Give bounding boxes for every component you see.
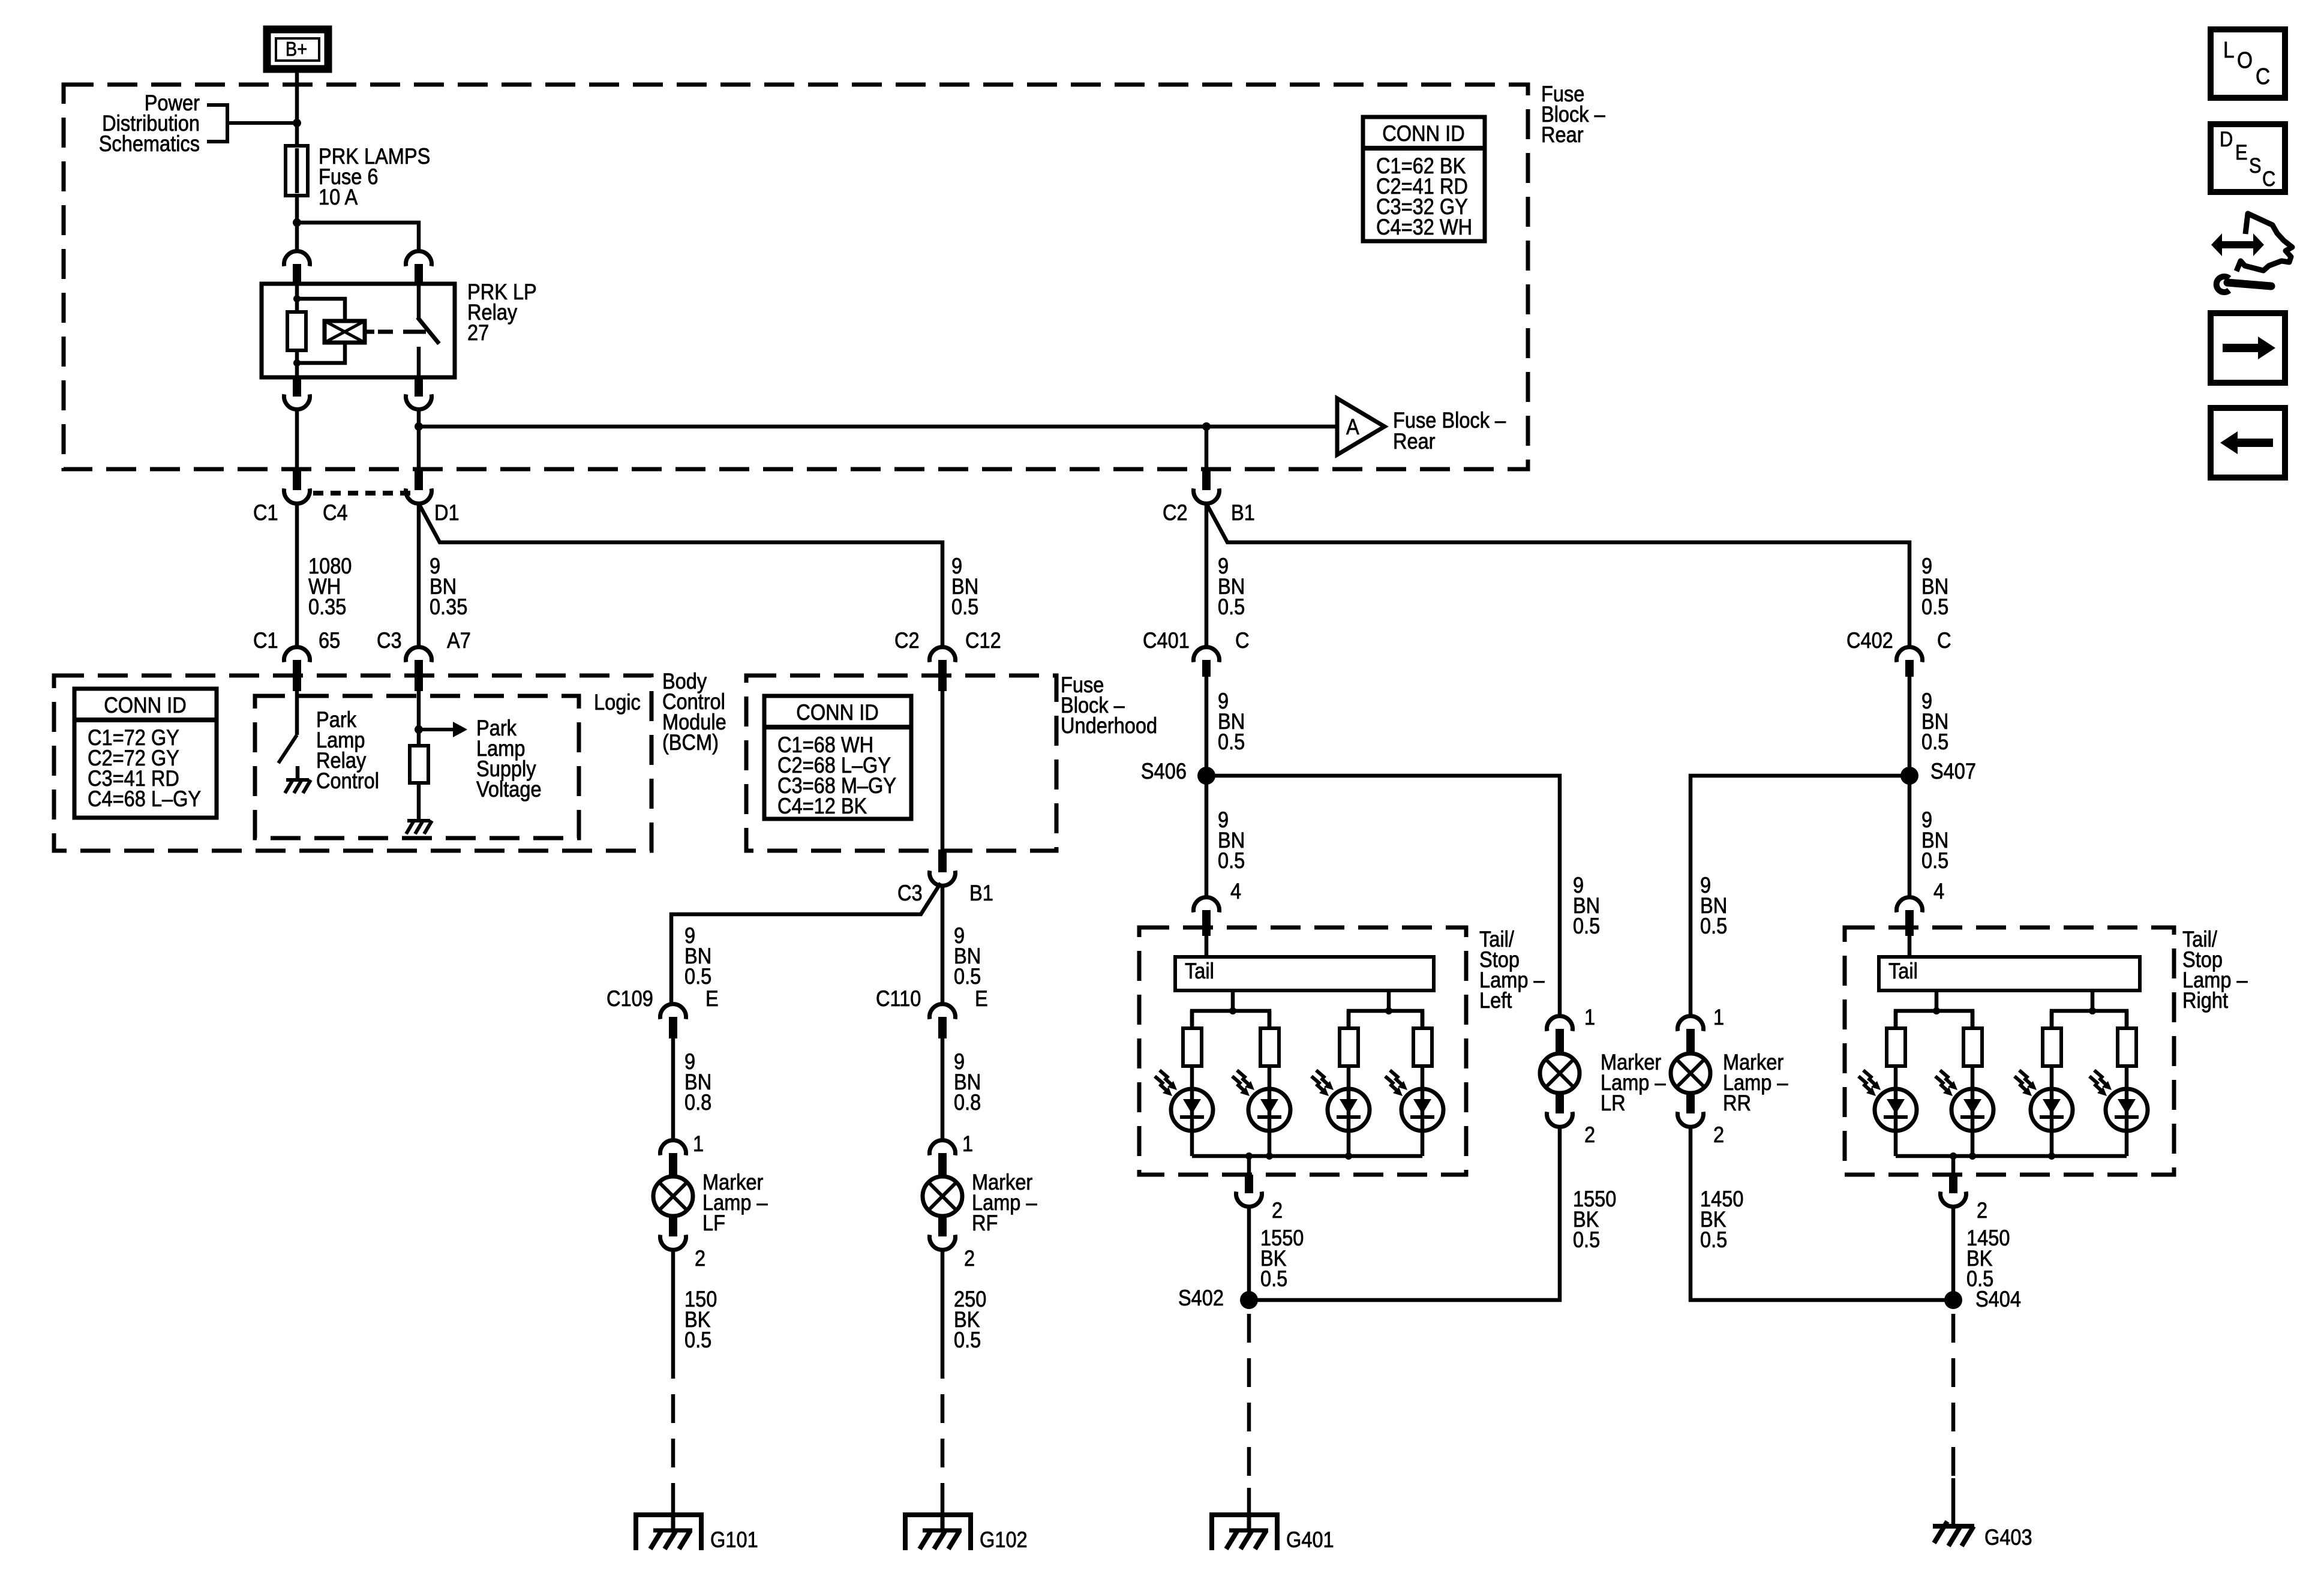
svg-text:2: 2 — [695, 1246, 705, 1271]
splice S402 — [1178, 1286, 1258, 1310]
LED cell 3 left — [1311, 1011, 1370, 1156]
connector D1 (fuse block rear, right) — [406, 467, 460, 525]
wire S404 to ground G403 — [1951, 1314, 1956, 1526]
svg-text:S404: S404 — [1975, 1287, 2021, 1311]
svg-text:CONN ID: CONN ID — [104, 693, 186, 718]
wire relay output left down to C1 — [295, 409, 299, 478]
node junction at B+ feed — [293, 119, 301, 127]
ground inside BCM (supply voltage) — [406, 783, 432, 834]
svg-text:D1: D1 — [434, 500, 460, 525]
wire 150 BK 0.5 to ground G101 — [673, 1250, 717, 1515]
relay switch contact — [418, 284, 439, 377]
svg-text:G401: G401 — [1286, 1527, 1334, 1552]
connector C109 pin E — [606, 986, 719, 1038]
svg-text:C: C — [1937, 628, 1951, 653]
svg-text:Right: Right — [2182, 988, 2228, 1013]
node junction below fuse — [293, 218, 301, 227]
Power Distribution Schematics reference — [99, 91, 297, 156]
svg-text:0.8: 0.8 — [954, 1090, 981, 1115]
wire fuse to relay — [295, 196, 299, 251]
BCM park lamp relay control switch — [278, 691, 379, 793]
icon diagnostic double arrow with wrench — [2211, 214, 2292, 292]
svg-text:E: E — [2235, 140, 2248, 164]
tail lamp right LED rail 2 — [2052, 990, 2127, 1028]
tail lamp left LED rail 2 — [1349, 990, 1422, 1028]
fuse PRK LAMPS Fuse 6 10 A — [286, 144, 430, 209]
wire branch to relay coil-side pin — [297, 223, 419, 251]
svg-text:C2: C2 — [894, 628, 920, 653]
BCM CONN ID table — [74, 689, 217, 818]
svg-text:Tail: Tail — [1888, 959, 1918, 983]
wire 1080 WH 0.35 — [297, 503, 352, 647]
svg-text:C4: C4 — [323, 500, 348, 525]
svg-text:4: 4 — [1933, 879, 1944, 903]
icon LOC box — [2211, 29, 2285, 98]
svg-text:C: C — [2256, 64, 2270, 89]
marker lamp LF pin 2 connector — [660, 1216, 706, 1271]
svg-text:Rear: Rear — [1393, 429, 1436, 454]
svg-text:B1: B1 — [1231, 500, 1255, 525]
relay PRK LP Relay 27 box — [262, 280, 537, 377]
connector relay pin top left — [284, 251, 310, 284]
svg-text:C401: C401 — [1143, 628, 1190, 653]
tail lamp right LED rail 1 — [1896, 990, 1972, 1028]
tail element box right — [1879, 936, 2140, 990]
svg-text:C109: C109 — [606, 986, 653, 1011]
wire 1550 BK 0.5 tail left to S402 — [1249, 1206, 1304, 1300]
connector pin 2 tail/stop lamp right — [1941, 1156, 1988, 1223]
LED cell 4 left — [1385, 1011, 1443, 1156]
relay coil symbol — [297, 299, 374, 363]
Body Control Module (BCM) dashed outline — [54, 669, 726, 851]
BCM park lamp supply voltage sense — [415, 691, 542, 801]
connector pin 2 tail/stop lamp left — [1236, 1156, 1283, 1223]
ground G403 — [1933, 1521, 2032, 1550]
icon forward arrow box — [2211, 313, 2285, 383]
ground G102 — [905, 1515, 1028, 1552]
svg-text:Left: Left — [1479, 988, 1512, 1013]
LED cell 1 left — [1155, 1011, 1213, 1156]
tail lamp left bottom bus — [1192, 1152, 1422, 1160]
splice S406 — [1141, 759, 1215, 785]
svg-text:(BCM): (BCM) — [662, 730, 719, 755]
svg-text:LF: LF — [702, 1211, 725, 1235]
svg-text:Voltage: Voltage — [476, 777, 542, 801]
svg-text:1: 1 — [962, 1131, 973, 1156]
svg-text:0.5: 0.5 — [1700, 914, 1727, 938]
svg-text:CONN ID: CONN ID — [796, 700, 878, 725]
svg-text:1: 1 — [1713, 1005, 1724, 1029]
connector pin 4 tail/stop lamp right — [1897, 879, 1945, 936]
marker lamp RR pin 1 connector — [1678, 1005, 1725, 1053]
svg-text:A: A — [1346, 415, 1359, 439]
svg-text:Tail: Tail — [1185, 959, 1214, 983]
LED cell 2 right — [1935, 1011, 1993, 1156]
wire 1450 BK 0.5 from RR to S404 — [1691, 1127, 1953, 1300]
svg-text:0.5: 0.5 — [1573, 914, 1600, 938]
svg-text:2: 2 — [1272, 1198, 1283, 1223]
label Fuse Block - Rear (top right) — [1541, 82, 1605, 147]
svg-text:Control: Control — [316, 769, 379, 793]
connector C2 pin C12 into fuse block underhood — [894, 628, 1001, 691]
wire B+ to fuse — [295, 68, 299, 146]
svg-text:0.35: 0.35 — [430, 595, 467, 619]
svg-text:C3: C3 — [897, 881, 923, 905]
svg-text:C110: C110 — [876, 986, 921, 1011]
marker lamp RR pin 2 connector — [1678, 1093, 1725, 1147]
svg-text:C4=68 L–GY: C4=68 L–GY — [88, 786, 201, 811]
svg-text:C402: C402 — [1846, 628, 1893, 653]
wire 9 BN 0.8 to marker lamp RF — [942, 1038, 981, 1140]
LED cell 2 left — [1232, 1011, 1290, 1156]
svg-text:C4=12 BK: C4=12 BK — [777, 794, 867, 818]
connector C401 pin C — [1143, 628, 1250, 677]
svg-text:D: D — [2220, 127, 2233, 151]
svg-text:0.5: 0.5 — [1921, 848, 1948, 873]
svg-text:G403: G403 — [1984, 1525, 2032, 1550]
svg-text:B+: B+ — [286, 38, 307, 60]
svg-text:0.5: 0.5 — [954, 1328, 981, 1352]
svg-text:Underhood: Underhood — [1061, 713, 1157, 738]
svg-text:C2: C2 — [1163, 500, 1188, 525]
wire C3/B1 down to C110 — [942, 885, 981, 1004]
svg-text:S: S — [2249, 154, 2262, 177]
BCM Logic dashed box — [255, 690, 641, 838]
wire down to connector C2/B1 — [1205, 427, 1209, 469]
svg-text:E: E — [705, 986, 719, 1011]
svg-text:0.5: 0.5 — [1700, 1227, 1727, 1252]
svg-text:C4=32 WH: C4=32 WH — [1376, 215, 1472, 239]
svg-text:CONN ID: CONN ID — [1382, 121, 1464, 146]
connector C1 pin 65 into BCM — [253, 628, 340, 691]
wire 9 BN 0.35 — [419, 503, 467, 647]
svg-text:0.5: 0.5 — [954, 964, 981, 989]
tail lamp right bottom bus — [1896, 1152, 2127, 1160]
svg-text:C12: C12 — [965, 628, 1001, 653]
lamp Marker Lamp - LF — [653, 1170, 768, 1235]
Fuse Block - Rear CONN ID table — [1363, 117, 1485, 241]
lamp Marker Lamp - LR — [1540, 1050, 1666, 1115]
svg-text:0.8: 0.8 — [684, 1090, 711, 1115]
svg-text:0.5: 0.5 — [1218, 848, 1245, 873]
marker lamp RF pin 2 connector — [930, 1216, 975, 1271]
connector relay pin bottom right — [406, 377, 432, 409]
ground G401 — [1212, 1515, 1334, 1552]
lamp Marker Lamp - RF — [923, 1170, 1037, 1235]
svg-text:RR: RR — [1723, 1091, 1751, 1115]
node junction on relay output — [415, 422, 423, 431]
wire 9 BN 0.5 from D1 to BCM C2 — [420, 506, 978, 647]
Tail/Stop Lamp - Right dashed outline — [1845, 927, 2248, 1175]
svg-text:RF: RF — [972, 1211, 998, 1235]
svg-text:0.35: 0.35 — [308, 595, 346, 619]
svg-text:2: 2 — [964, 1246, 975, 1271]
svg-text:0.5: 0.5 — [684, 964, 711, 989]
svg-text:O: O — [2237, 47, 2253, 73]
wire S402 to ground G401 — [1247, 1314, 1251, 1515]
svg-text:65: 65 — [319, 628, 340, 653]
Fuse Block - Rear dashed outline — [64, 85, 1528, 469]
wire through fuse block underhood — [941, 691, 945, 849]
relay actuation dashed link — [378, 330, 426, 334]
connector C402 pin C — [1846, 628, 1951, 677]
ground G101 — [636, 1515, 758, 1552]
svg-text:C3: C3 — [377, 628, 402, 653]
svg-text:0.5: 0.5 — [1921, 730, 1948, 754]
svg-text:0.5: 0.5 — [1921, 595, 1948, 619]
connector C3 pin A7 into BCM — [377, 628, 471, 691]
icon DESC box — [2211, 124, 2285, 192]
marker lamp LR pin 2 connector — [1547, 1093, 1596, 1147]
lamp Marker Lamp - RR — [1671, 1050, 1788, 1115]
connector relay pin bottom left — [284, 377, 310, 409]
svg-text:C1: C1 — [253, 628, 278, 653]
svg-text:Schematics: Schematics — [99, 131, 200, 156]
wire C402 to splice S407 — [1909, 677, 1948, 776]
svg-text:0.5: 0.5 — [951, 595, 978, 619]
splice S404 — [1944, 1287, 2021, 1311]
connector mating dashed line C4 — [313, 491, 412, 496]
svg-text:0.5: 0.5 — [1218, 730, 1245, 754]
svg-text:27: 27 — [467, 320, 489, 345]
svg-text:1: 1 — [1584, 1005, 1595, 1029]
svg-text:L: L — [2223, 37, 2235, 62]
svg-text:S406: S406 — [1141, 759, 1187, 784]
connector relay pin top right — [406, 251, 432, 284]
ground inside BCM (relay control) — [285, 766, 311, 793]
svg-text:S407: S407 — [1930, 759, 1976, 784]
wire 250 BK 0.5 to ground G102 — [942, 1250, 986, 1515]
wire C3/B1 branch to left marker lamps — [671, 883, 941, 1004]
svg-text:0.5: 0.5 — [1573, 1227, 1600, 1252]
wire S406 down to tail/stop left pin 4 — [1206, 776, 1245, 897]
splice S407 — [1900, 759, 1976, 785]
svg-text:10 A: 10 A — [319, 185, 358, 209]
Fuse Block - Underhood dashed outline — [746, 673, 1157, 851]
node junction to C2/B1 drop — [1202, 422, 1211, 431]
svg-text:4: 4 — [1230, 879, 1241, 903]
marker lamp RF pin 1 connector — [930, 1131, 974, 1176]
connector C3 pin B1 out of fuse block underhood — [897, 849, 993, 905]
svg-text:G101: G101 — [710, 1527, 758, 1552]
off-page arrow A Fuse Block - Rear — [1337, 398, 1506, 455]
wire relay output to fuse block rear arrow — [419, 425, 1337, 429]
LED cell 1 right — [1858, 1011, 1917, 1156]
marker lamp LR pin 1 connector — [1547, 1005, 1596, 1053]
LED cell 3 right — [2014, 1011, 2073, 1156]
svg-text:C: C — [1235, 628, 1250, 653]
svg-text:G102: G102 — [980, 1527, 1028, 1552]
connector C110 pin E — [876, 986, 988, 1038]
wire C401 to splice S406 — [1206, 677, 1245, 776]
svg-text:S402: S402 — [1178, 1286, 1224, 1310]
wire S407 to marker lamp RR — [1691, 776, 1909, 1016]
svg-text:Rear: Rear — [1541, 122, 1584, 147]
tail element box left — [1175, 936, 1434, 990]
svg-text:Logic: Logic — [594, 690, 641, 715]
svg-text:0.5: 0.5 — [1218, 595, 1245, 619]
wire 9 BN 0.8 to marker lamp LF — [673, 1038, 711, 1140]
svg-text:2: 2 — [1977, 1198, 1987, 1223]
svg-text:C: C — [2262, 167, 2275, 190]
connector pin 4 tail/stop lamp left — [1194, 879, 1242, 936]
svg-text:A7: A7 — [447, 628, 471, 653]
tail lamp left LED rail 1 — [1192, 990, 1269, 1028]
svg-text:E: E — [975, 986, 988, 1011]
svg-text:1: 1 — [693, 1131, 704, 1156]
Fuse Block - Underhood CONN ID table — [764, 696, 911, 819]
resistor inside BCM — [410, 746, 428, 783]
svg-text:C1: C1 — [253, 500, 278, 525]
wire 1450 BK 0.5 tail right to S404 — [1953, 1206, 2010, 1300]
svg-text:0.5: 0.5 — [1260, 1266, 1287, 1291]
wire S407 down to tail/stop right pin 4 — [1909, 776, 1948, 897]
wire 9 BN 0.5 from B1 to tail/stop right — [1208, 506, 1948, 647]
svg-text:0.5: 0.5 — [684, 1328, 711, 1352]
wire 1550 BK 0.5 from LR to S402 — [1249, 1127, 1616, 1300]
svg-text:LR: LR — [1601, 1091, 1626, 1115]
wire 9 BN 0.5 from B1 down to C401 — [1206, 503, 1245, 647]
svg-text:2: 2 — [1584, 1122, 1595, 1147]
Tail/Stop Lamp - Left dashed outline — [1139, 927, 1545, 1175]
relay coil branch with resistor — [287, 284, 306, 377]
marker lamp LF pin 1 connector — [660, 1131, 704, 1176]
svg-text:2: 2 — [1713, 1122, 1724, 1147]
LED cell 4 right — [2089, 1011, 2148, 1156]
wire relay output right down to D1 — [417, 409, 421, 478]
svg-text:B1: B1 — [969, 881, 993, 905]
connector C2 pin B1 below fuse block rear — [1163, 467, 1255, 525]
connector C1 (fuse block rear, left) — [253, 467, 348, 525]
battery feed terminal B+ — [267, 29, 328, 69]
icon back arrow box — [2211, 408, 2285, 478]
wire S406 to marker lamp LR — [1206, 776, 1600, 1016]
